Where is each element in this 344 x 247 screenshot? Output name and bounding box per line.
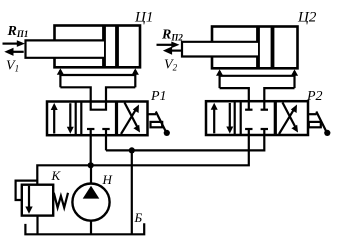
valve P1 centre square blocked P port xyxy=(87,129,94,135)
relief valve K body xyxy=(22,185,53,216)
wire C1 crossbar xyxy=(60,74,135,76)
cylinder C1 body xyxy=(55,26,141,68)
wire return branch to tank xyxy=(131,150,133,234)
junction dot pump node xyxy=(88,162,94,168)
force arrow Rp1 xyxy=(3,40,26,47)
return line xyxy=(106,135,264,150)
valve P1 left square down arrow xyxy=(67,103,74,134)
junction dot return node xyxy=(129,147,135,153)
port arrow C2 left xyxy=(216,69,223,88)
cylinder C2 rod xyxy=(182,42,258,57)
valve P1 right square crossed arrows xyxy=(121,103,140,135)
valve P1 body xyxy=(47,102,148,136)
valve P2 centre square blocked B port xyxy=(261,101,268,110)
valve P2 body xyxy=(206,101,308,135)
velocity arrow V2 xyxy=(163,47,181,55)
valve P2 right square crossed arrows xyxy=(279,103,298,135)
valve P2 centre square blocked T port xyxy=(261,129,268,135)
wire pump discharge xyxy=(90,165,92,183)
wire C1 right port to valve B xyxy=(106,87,135,101)
wire C2 left port to valve A xyxy=(220,88,249,101)
svg-text:Б: Б xyxy=(134,210,143,225)
cylinder C2 piston xyxy=(258,27,273,69)
valve P1 centre square A-B bridge xyxy=(91,102,106,110)
svg-text:RП1: RП1 xyxy=(7,24,29,39)
valve P2 lever actuator xyxy=(308,112,330,136)
svg-text:К: К xyxy=(51,168,62,183)
tank B xyxy=(25,223,144,234)
valve P2 centre square blocked A port xyxy=(245,101,252,110)
valve P2 centre square blocked P port xyxy=(245,129,252,135)
svg-text:Ц2: Ц2 xyxy=(297,10,317,26)
pressure line xyxy=(37,135,249,185)
valve P2 left square down arrow xyxy=(226,103,233,134)
relief valve K flow arrow xyxy=(25,186,32,214)
wire P1 P-port to pressure line xyxy=(90,135,92,165)
cylinder C1 rod xyxy=(26,40,105,57)
port arrow C1 left xyxy=(57,68,64,87)
wire C2 crossbar xyxy=(220,75,295,77)
svg-text:V1: V1 xyxy=(6,59,19,74)
relief valve K spring xyxy=(54,193,68,208)
svg-text:Н: Н xyxy=(102,172,113,187)
pump N xyxy=(72,184,109,221)
svg-text:Р1: Р1 xyxy=(150,89,167,104)
cylinder C2 body xyxy=(212,27,298,69)
force arrow Rp2 xyxy=(157,42,180,49)
svg-text:V2: V2 xyxy=(164,58,178,73)
wire pump suction xyxy=(90,221,92,235)
valve P1 left square up arrow xyxy=(51,103,58,134)
wire C1 left port to valve A xyxy=(60,87,90,101)
wire P1 T-port to return line xyxy=(105,135,107,150)
velocity arrow V1 xyxy=(4,48,23,56)
svg-text:Р2: Р2 xyxy=(306,89,323,104)
valve P1 lever actuator xyxy=(148,112,170,136)
wire C2 right port to valve B xyxy=(264,88,294,101)
svg-text:Ц1: Ц1 xyxy=(134,10,153,26)
port arrow C2 right xyxy=(291,69,298,88)
wire K to tank xyxy=(36,216,38,235)
port arrow C1 right xyxy=(132,68,139,87)
valve P2 left square up arrow xyxy=(211,103,218,134)
svg-text:RП2: RП2 xyxy=(161,28,183,43)
relief valve K pilot line xyxy=(16,181,38,200)
valve P1 centre square blocked T port xyxy=(102,129,109,135)
cylinder C1 piston xyxy=(104,26,117,68)
